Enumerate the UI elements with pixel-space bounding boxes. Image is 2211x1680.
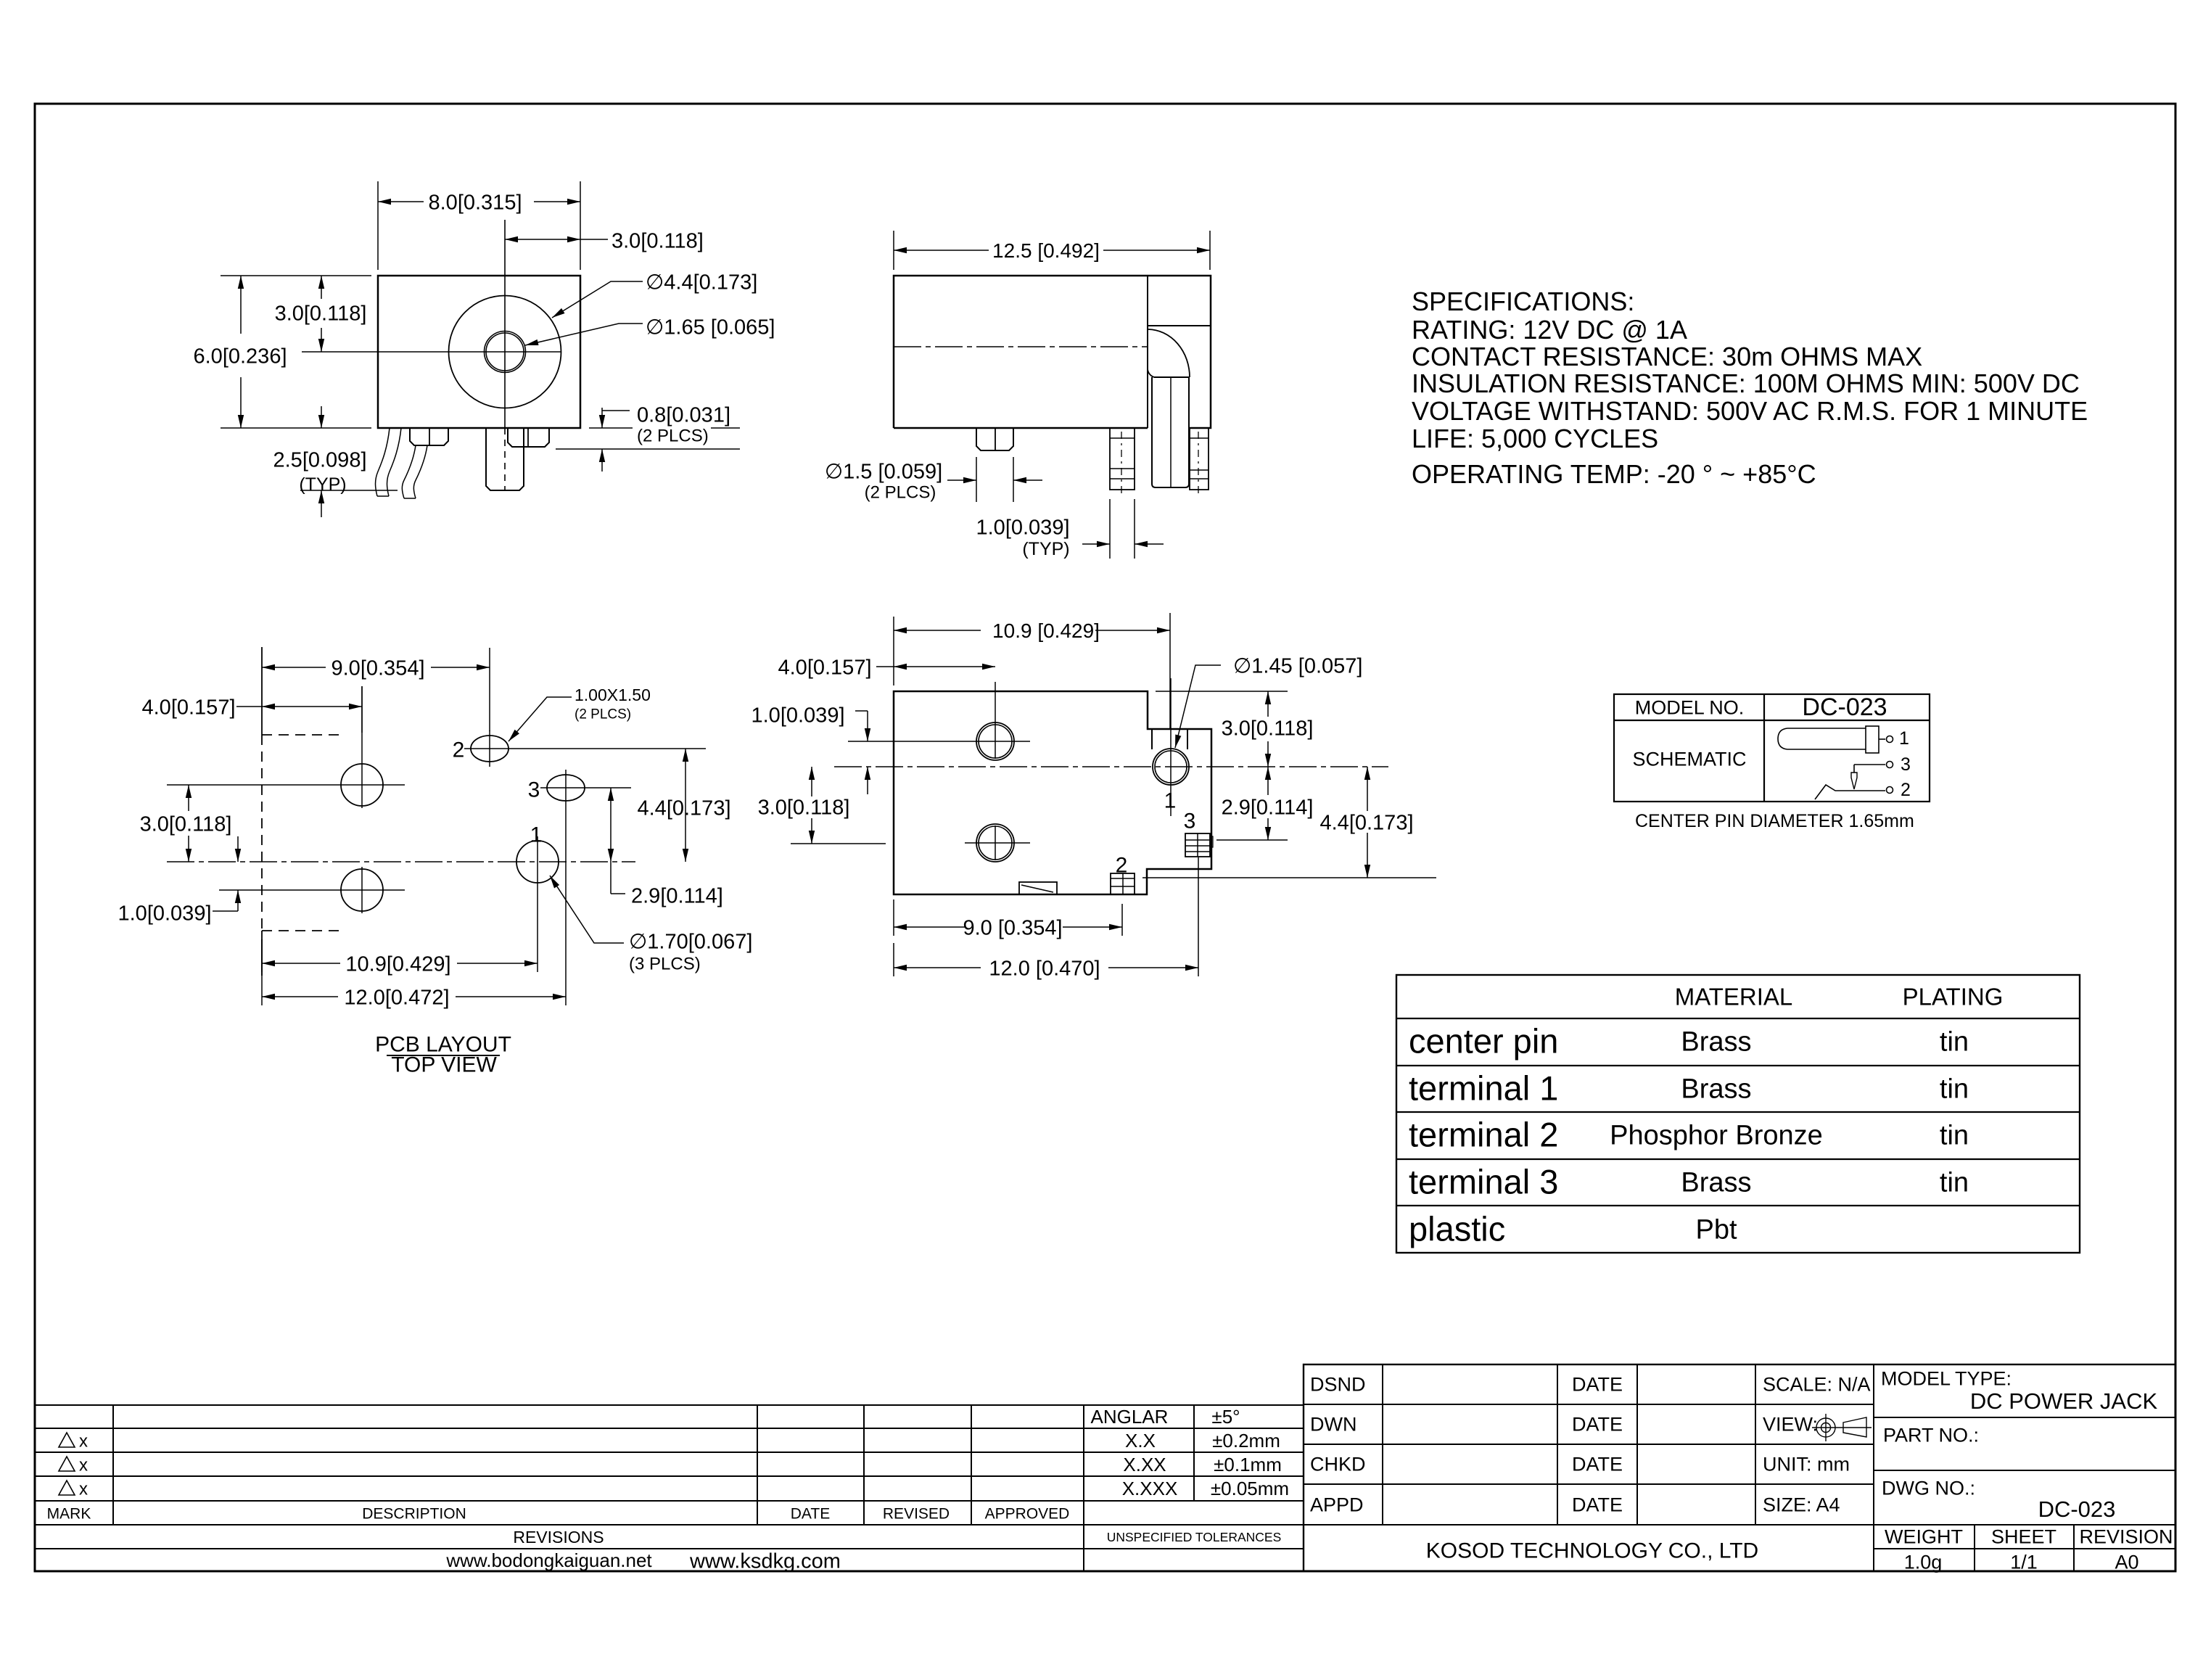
schematic terminal 3 (1854, 764, 1885, 765)
svg-text:±0.05mm: ±0.05mm (1211, 1478, 1289, 1499)
bottom view terminal 3 box (1185, 833, 1210, 857)
svg-text:DATE: DATE (1572, 1494, 1623, 1516)
bottom dimension 4.4 [0.173] right (1142, 877, 1436, 878)
bottom leader dia 1.45 [0.057] (1175, 665, 1221, 748)
svg-text:tin: tin (1940, 1027, 1969, 1058)
svg-text:www.ksdkg.com: www.ksdkg.com (689, 1549, 841, 1573)
dimension 3.0 [0.118] left upper (321, 276, 322, 299)
svg-text:Phosphor Bronze: Phosphor Bronze (1610, 1121, 1823, 1151)
svg-text:MODEL TYPE:: MODEL TYPE: (1881, 1368, 2012, 1390)
dimension 8.0 [0.315] top width (377, 181, 379, 270)
svg-text:center pin: center pin (1409, 1022, 1558, 1061)
svg-text:(2 PLCS): (2 PLCS) (575, 707, 631, 722)
svg-text:X.XXX: X.XXX (1122, 1478, 1178, 1499)
svg-text:2: 2 (1901, 780, 1911, 800)
bottom dimension 3.0 [0.118] right (1267, 691, 1269, 717)
front view center pin ring (485, 332, 526, 373)
svg-text:3: 3 (1184, 810, 1196, 833)
dimension dia 1.5 [0.059] 2 PLCS pin width (976, 457, 977, 502)
svg-text:KOSOD TECHNOLOGY CO., LTD: KOSOD TECHNOLOGY CO., LTD (1426, 1539, 1758, 1563)
svg-text:SIZE: A4: SIZE: A4 (1763, 1494, 1840, 1516)
side view step line (1148, 325, 1211, 326)
leader dia 4.4 [0.173] (552, 281, 643, 318)
specifications text block (1412, 287, 2088, 489)
svg-text:terminal 1: terminal 1 (1409, 1069, 1558, 1108)
bottom view slanted spring terminal (1019, 882, 1057, 894)
svg-text:1/1: 1/1 (2010, 1552, 2038, 1573)
svg-text:tin: tin (1940, 1074, 1969, 1105)
svg-text:x: x (79, 1432, 88, 1452)
svg-text:OPERATING TEMP: -20 ° ~ +85°C: OPERATING TEMP: -20 ° ~ +85°C (1412, 459, 1816, 489)
bottom view terminal 2 box (1111, 873, 1135, 894)
svg-text:WEIGHT: WEIGHT (1885, 1526, 1963, 1548)
front view second wavy leg (402, 445, 416, 498)
svg-text:SPECIFICATIONS:: SPECIFICATIONS: (1412, 287, 1634, 316)
svg-text:DSND: DSND (1310, 1374, 1366, 1396)
view symbol (1816, 1418, 1835, 1437)
svg-text:∅1.65 [0.065]: ∅1.65 [0.065] (646, 316, 775, 339)
front view right nut pin (508, 428, 549, 447)
svg-text:∅1.45 [0.057]: ∅1.45 [0.057] (1233, 654, 1362, 678)
svg-text:4.0[0.157]: 4.0[0.157] (778, 656, 872, 679)
front view bushing circle dia 4.4 (449, 296, 561, 408)
svg-text:ANGLAR: ANGLAR (1091, 1406, 1169, 1428)
pcb pad 2 oval (471, 736, 509, 762)
svg-text:Brass: Brass (1681, 1027, 1751, 1058)
bottom dimension 4.0 [0.157] (876, 666, 995, 667)
dimension 2.5 [0.098] TYP leg length (300, 490, 398, 491)
svg-text:A0: A0 (2115, 1552, 2138, 1573)
pcb dimension 4.4 [0.173] (685, 749, 686, 862)
dimension 12.5 [0.492] side length (893, 231, 894, 270)
svg-text:tin: tin (1940, 1121, 1969, 1151)
svg-text:∅4.4[0.173]: ∅4.4[0.173] (646, 271, 757, 294)
front view left wavy leg (376, 428, 390, 496)
svg-text:DC POWER JACK: DC POWER JACK (1970, 1388, 2158, 1414)
svg-text:Brass: Brass (1681, 1074, 1751, 1105)
svg-text:www.bodongkaiguan.net: www.bodongkaiguan.net (445, 1549, 652, 1571)
svg-text:DATE: DATE (791, 1506, 830, 1523)
bottom view pin 1 circle (1153, 749, 1189, 785)
schematic plug symbol (1787, 728, 1866, 749)
leader dia 1.65 [0.065] (525, 324, 643, 345)
pcb leader 1.00X1.50 2 PLCS (509, 697, 572, 741)
bottom dimension 2.9 [0.114] right (1216, 839, 1288, 841)
svg-text:1.0[0.039]: 1.0[0.039] (118, 902, 212, 925)
svg-text:DATE: DATE (1572, 1374, 1623, 1396)
pcb hole 1 (516, 841, 559, 883)
svg-text:MATERIAL: MATERIAL (1675, 984, 1793, 1010)
svg-text:1.00X1.50: 1.00X1.50 (575, 685, 651, 704)
svg-text:DC-023: DC-023 (2038, 1496, 2116, 1522)
pcb dimension 4.0 [0.157] (361, 686, 363, 733)
svg-text:VOLTAGE WITHSTAND: 500V AC R.M: VOLTAGE WITHSTAND: 500V AC R.M.S. FOR 1 … (1412, 396, 2088, 426)
svg-text:∅1.5 [0.059]: ∅1.5 [0.059] (825, 460, 942, 483)
svg-text:±0.2mm: ±0.2mm (1212, 1430, 1280, 1452)
pcb leader dia 1.70 3 PLCS (550, 876, 624, 943)
svg-text:terminal 2: terminal 2 (1409, 1116, 1558, 1154)
pcb dimension 3.0 [0.118] (188, 785, 189, 811)
svg-text:±5°: ±5° (1211, 1406, 1240, 1428)
side view centerline (894, 346, 1148, 347)
svg-text:INSULATION RESISTANCE: 100M OH: INSULATION RESISTANCE: 100M OHMS MIN: 50… (1412, 368, 2080, 398)
bottom dimension 9.0 [0.354] (893, 899, 894, 936)
pcb dimension 12.0 [0.472] (261, 939, 263, 1005)
svg-text:x: x (79, 1480, 88, 1499)
svg-text:4.4[0.173]: 4.4[0.173] (638, 796, 731, 820)
svg-text:DESCRIPTION: DESCRIPTION (362, 1506, 466, 1523)
dimension 1.0 [0.039] TYP terminal width (1109, 499, 1111, 559)
bottom dimension 10.9 [0.429] (893, 617, 894, 685)
revisions table (35, 1405, 1304, 1571)
svg-text:APPD: APPD (1310, 1494, 1364, 1516)
front view left nut pin (410, 428, 448, 445)
svg-text:LIFE: 5,000 CYCLES: LIFE: 5,000 CYCLES (1412, 424, 1658, 453)
pcb dimension 9.0 [0.354] (489, 648, 490, 731)
svg-text:∅1.70[0.067]: ∅1.70[0.067] (629, 930, 752, 953)
svg-text:CENTER PIN DIAMETER 1.65mm: CENTER PIN DIAMETER 1.65mm (1635, 811, 1914, 831)
svg-text:REVISION: REVISION (2079, 1526, 2173, 1548)
bottom view pocket for pin 1 (1151, 729, 1153, 749)
svg-text:1.0g: 1.0g (1904, 1552, 1943, 1573)
svg-text:REVISED: REVISED (883, 1506, 950, 1523)
svg-text:X.XX: X.XX (1123, 1454, 1166, 1475)
svg-text:Pbt: Pbt (1695, 1215, 1737, 1245)
pcb dimension 10.9 [0.429] (261, 939, 263, 972)
svg-text:SCALE: N/A: SCALE: N/A (1763, 1374, 1871, 1396)
svg-text:SCHEMATIC: SCHEMATIC (1632, 749, 1746, 770)
svg-text:1.0[0.039]: 1.0[0.039] (752, 704, 845, 727)
svg-text:6.0[0.236]: 6.0[0.236] (194, 345, 287, 368)
svg-text:2.9[0.114]: 2.9[0.114] (1222, 796, 1314, 819)
svg-text:DC-023: DC-023 (1802, 693, 1887, 721)
front view horizontal centerline (302, 351, 561, 353)
side view crimp terminal column A (1110, 428, 1135, 490)
svg-text:APPROVED: APPROVED (985, 1506, 1070, 1523)
svg-text:terminal 3: terminal 3 (1409, 1163, 1558, 1201)
dimension 6.0 [0.236] left height (221, 275, 371, 276)
title block outline (1304, 1364, 2175, 1571)
svg-text:3.0[0.118]: 3.0[0.118] (612, 229, 704, 252)
pcb hole lower left (341, 869, 383, 911)
front view center pin blade (486, 428, 524, 490)
svg-text:1: 1 (530, 823, 543, 847)
svg-text:(2 PLCS): (2 PLCS) (637, 427, 709, 446)
side view body outline (894, 276, 1211, 428)
bottom right ext top edge (1156, 691, 1288, 692)
bottom view outline (894, 691, 1211, 894)
bottom dimension 12.0 [0.470] (893, 943, 894, 976)
pcb layout reference edge line (261, 647, 263, 735)
svg-text:tin: tin (1940, 1168, 1969, 1198)
svg-text:PLATING: PLATING (1903, 984, 2004, 1010)
svg-text:1.0[0.039]: 1.0[0.039] (976, 516, 1070, 539)
svg-text:4.0[0.157]: 4.0[0.157] (142, 696, 236, 719)
side view crimp terminal column B (1190, 428, 1209, 490)
side view terminal bend arc (1148, 329, 1190, 377)
svg-text:10.9[0.429]: 10.9[0.429] (345, 952, 450, 976)
svg-text:12.5 [0.492]: 12.5 [0.492] (992, 239, 1100, 262)
svg-text:±0.1mm: ±0.1mm (1214, 1454, 1282, 1475)
pcb dimension 1.0 [0.039] (237, 836, 239, 862)
dimension 3.0 [0.118] top offset (505, 239, 608, 240)
svg-text:plastic: plastic (1409, 1210, 1505, 1248)
svg-text:x: x (79, 1456, 88, 1475)
pcb dimension 2.9 [0.114] (610, 788, 612, 862)
pcb pad 3 oval (547, 775, 585, 801)
svg-text:(TYP): (TYP) (299, 474, 346, 495)
svg-text:PART NO.:: PART NO.: (1883, 1425, 1979, 1446)
svg-text:2.5[0.098]: 2.5[0.098] (273, 448, 367, 472)
bottom view hole upper (976, 722, 1014, 760)
svg-text:DWN: DWN (1310, 1414, 1356, 1436)
svg-text:CHKD: CHKD (1310, 1454, 1366, 1475)
dimension 0.8 [0.031] pin step (589, 427, 633, 429)
side view inner vertical edge (1147, 276, 1148, 428)
svg-text:10.9 [0.429]: 10.9 [0.429] (992, 619, 1100, 642)
pcb hole upper left (341, 764, 383, 806)
svg-text:3.0[0.118]: 3.0[0.118] (140, 812, 232, 836)
svg-text:(2 PLCS): (2 PLCS) (865, 483, 936, 503)
svg-text:TOP VIEW: TOP VIEW (391, 1053, 497, 1077)
revision mark triangles (59, 1433, 75, 1447)
svg-text:2: 2 (1116, 854, 1128, 878)
schematic terminal 2 spring (1815, 785, 1885, 799)
svg-text:2: 2 (453, 738, 465, 762)
svg-text:3.0[0.118]: 3.0[0.118] (275, 302, 367, 325)
svg-text:REVISIONS: REVISIONS (513, 1528, 604, 1547)
side view front nut pin (976, 428, 1013, 450)
bottom view hole lower (976, 824, 1014, 862)
svg-text:2.9[0.114]: 2.9[0.114] (631, 884, 723, 907)
bottom dimension 3.0 [0.118] left (791, 843, 886, 844)
svg-text:(TYP): (TYP) (1022, 539, 1069, 559)
pcb main centerline (167, 861, 635, 862)
bottom view centerline (834, 766, 1388, 767)
model number schematic box (1614, 694, 1930, 802)
svg-text:12.0 [0.470]: 12.0 [0.470] (989, 957, 1100, 980)
svg-text:12.0[0.472]: 12.0[0.472] (344, 986, 449, 1009)
svg-text:DATE: DATE (1572, 1454, 1623, 1475)
svg-text:DWG NO.:: DWG NO.: (1882, 1478, 1975, 1499)
svg-text:SHEET: SHEET (1991, 1526, 2056, 1548)
svg-text:3.0[0.118]: 3.0[0.118] (758, 796, 850, 819)
svg-text:DATE: DATE (1572, 1414, 1623, 1436)
svg-text:0.8[0.031]: 0.8[0.031] (637, 403, 730, 427)
svg-text:Brass: Brass (1681, 1168, 1751, 1198)
svg-text:3: 3 (528, 778, 540, 802)
side view barrel pin (1151, 377, 1153, 484)
svg-text:RATING: 12V DC @ 1A: RATING: 12V DC @ 1A (1412, 315, 1687, 345)
svg-text:VIEW:: VIEW: (1763, 1414, 1818, 1436)
svg-text:3.0[0.118]: 3.0[0.118] (1222, 717, 1314, 740)
svg-text:9.0 [0.354]: 9.0 [0.354] (963, 916, 1062, 939)
svg-text:UNIT: mm: UNIT: mm (1763, 1454, 1850, 1475)
svg-text:(3 PLCS): (3 PLCS) (629, 955, 701, 974)
pcb layout dashed body outline (262, 734, 345, 736)
svg-text:X.X: X.X (1125, 1430, 1156, 1452)
svg-text:UNSPECIFIED TOLERANCES: UNSPECIFIED TOLERANCES (1107, 1530, 1282, 1544)
front view vertical centerline (504, 220, 506, 428)
front view body outline (378, 276, 580, 428)
svg-text:MODEL NO.: MODEL NO. (1635, 697, 1745, 719)
svg-text:8.0[0.315]: 8.0[0.315] (429, 191, 522, 214)
materials table (1396, 975, 2080, 1253)
svg-text:CONTACT RESISTANCE: 30m OHMS M: CONTACT RESISTANCE: 30m OHMS MAX (1412, 342, 1922, 371)
svg-text:1: 1 (1164, 789, 1177, 813)
svg-text:MARK: MARK (47, 1506, 91, 1523)
svg-text:9.0[0.354]: 9.0[0.354] (332, 656, 425, 680)
svg-text:3: 3 (1901, 754, 1911, 775)
svg-text:4.4[0.173]: 4.4[0.173] (1320, 811, 1414, 834)
svg-text:1: 1 (1899, 728, 1909, 749)
